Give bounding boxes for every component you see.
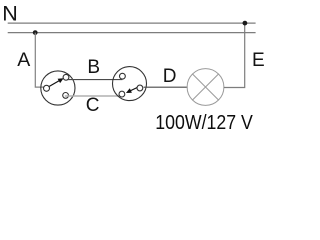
svg-text:A: A	[17, 49, 30, 71]
svg-text:B: B	[87, 57, 100, 78]
switch S1 pole arrow	[49, 80, 59, 86]
junction on phase bus feeding wire A	[33, 30, 38, 35]
wire B (top traveller)	[67, 79, 122, 81]
svg-text:100W/127 V: 100W/127 V	[155, 112, 253, 134]
wire C (bottom traveller)	[65, 95, 122, 97]
svg-text:E: E	[252, 50, 265, 71]
phase bus (second supply line)	[8, 32, 256, 34]
switch S1 traveller terminal (bottom)	[63, 93, 69, 99]
switch S2 traveller terminal (bottom left)	[119, 91, 125, 97]
wire E (neutral drop to lamp)	[224, 23, 245, 87]
lamp L1 cross stroke 1	[193, 74, 219, 100]
junction on neutral bus feeding wire E	[243, 21, 248, 26]
svg-text:D: D	[163, 66, 177, 87]
neutral bus N (top supply line)	[8, 22, 256, 24]
lamp L1 cross stroke 2	[193, 74, 219, 100]
switch S2 traveller terminal (top left)	[120, 73, 126, 79]
switch S1 common terminal (left)	[44, 85, 50, 91]
svg-text:N: N	[2, 1, 18, 25]
switch S2 pole arrow	[130, 88, 137, 92]
switch S2 (three-way switch) body	[113, 67, 147, 101]
switch S2 common terminal (right)	[137, 85, 143, 91]
svg-text:C: C	[86, 95, 100, 116]
switch S1 traveller terminal (top right)	[63, 74, 69, 80]
lamp L1 body	[187, 69, 224, 106]
wire D (switched line to lamp)	[144, 86, 188, 88]
switch S1 (three-way switch) body	[41, 71, 75, 105]
wire A (phase drop to switch S1)	[35, 33, 43, 88]
